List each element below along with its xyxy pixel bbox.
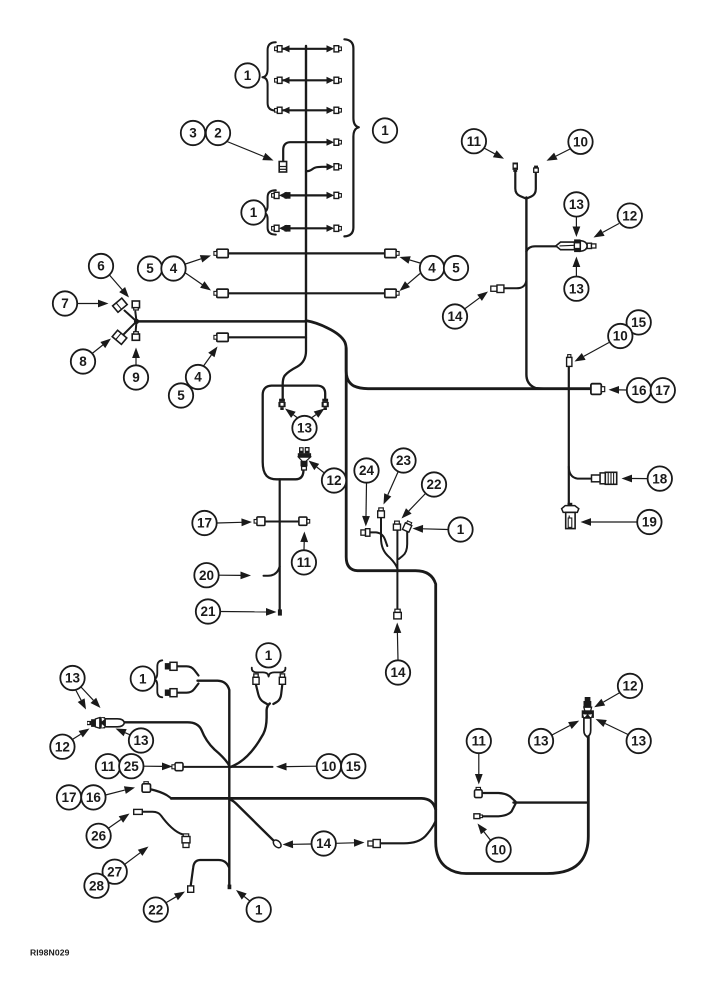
svg-text:1: 1 [244, 68, 252, 83]
svg-text:13: 13 [569, 281, 585, 296]
svg-text:2: 2 [214, 126, 222, 141]
svg-text:19: 19 [642, 515, 657, 530]
svg-text:11: 11 [101, 759, 116, 774]
svg-text:23: 23 [396, 453, 412, 468]
svg-text:20: 20 [199, 568, 214, 583]
svg-text:18: 18 [652, 471, 668, 486]
svg-text:11: 11 [297, 555, 312, 570]
svg-text:1: 1 [381, 123, 389, 138]
svg-text:11: 11 [467, 134, 482, 149]
svg-text:14: 14 [316, 836, 332, 851]
svg-text:13: 13 [133, 733, 149, 748]
svg-text:5: 5 [177, 388, 185, 403]
svg-text:14: 14 [447, 309, 463, 324]
svg-text:26: 26 [91, 829, 107, 844]
svg-text:10: 10 [613, 329, 628, 344]
svg-text:28: 28 [89, 878, 105, 893]
svg-text:22: 22 [426, 477, 441, 492]
svg-text:13: 13 [297, 421, 313, 436]
svg-text:13: 13 [65, 671, 81, 686]
svg-text:4: 4 [428, 261, 436, 276]
svg-text:1: 1 [250, 205, 258, 220]
svg-text:15: 15 [631, 315, 647, 330]
svg-text:1: 1 [265, 648, 273, 663]
svg-text:3: 3 [189, 126, 197, 141]
svg-text:5: 5 [146, 261, 154, 276]
svg-text:25: 25 [124, 759, 140, 774]
svg-text:4: 4 [194, 370, 202, 385]
svg-text:1: 1 [255, 902, 263, 917]
svg-text:11: 11 [472, 734, 487, 749]
svg-text:12: 12 [55, 739, 70, 754]
svg-text:17: 17 [197, 516, 212, 531]
svg-text:17: 17 [655, 383, 670, 398]
svg-text:12: 12 [326, 473, 341, 488]
svg-text:12: 12 [622, 208, 637, 223]
svg-text:27: 27 [107, 864, 122, 879]
svg-text:24: 24 [359, 463, 375, 478]
svg-text:16: 16 [631, 383, 647, 398]
svg-text:13: 13 [533, 734, 549, 749]
svg-text:5: 5 [452, 261, 460, 276]
svg-text:7: 7 [61, 296, 69, 311]
svg-text:9: 9 [132, 370, 140, 385]
svg-text:12: 12 [622, 679, 637, 694]
svg-text:10: 10 [491, 842, 506, 857]
svg-text:RI98N029: RI98N029 [30, 948, 70, 958]
svg-text:10: 10 [321, 759, 336, 774]
svg-text:16: 16 [86, 790, 102, 805]
svg-text:1: 1 [457, 522, 465, 537]
svg-text:10: 10 [573, 135, 588, 150]
svg-text:1: 1 [139, 671, 147, 686]
svg-text:6: 6 [97, 259, 105, 274]
svg-text:4: 4 [170, 261, 178, 276]
svg-text:14: 14 [390, 665, 406, 680]
svg-text:8: 8 [79, 354, 87, 369]
svg-text:22: 22 [148, 902, 163, 917]
svg-text:13: 13 [569, 197, 585, 212]
svg-text:15: 15 [346, 759, 362, 774]
svg-text:13: 13 [631, 734, 647, 749]
svg-text:21: 21 [200, 604, 216, 619]
svg-text:17: 17 [61, 790, 76, 805]
